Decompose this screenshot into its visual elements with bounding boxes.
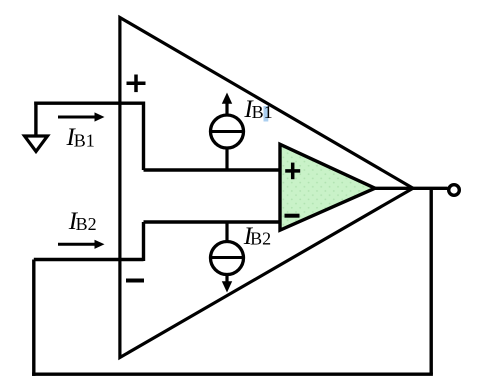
current source IB1 bbox=[211, 93, 244, 171]
ground bbox=[25, 136, 48, 152]
op-amp U1 (large modeled op-amp triangle) bbox=[120, 18, 413, 358]
label + (U2 non-inverting input) bbox=[285, 163, 300, 180]
arrow IB2 current direction bbox=[58, 240, 105, 249]
op-amp U2 (ideal inner op-amp, green) bbox=[280, 144, 375, 230]
wire: ground stub vertical bbox=[34, 102, 37, 137]
svg-text:B2: B2 bbox=[250, 229, 271, 249]
wire: feedback left vertical bbox=[32, 260, 35, 376]
svg-text:B1: B1 bbox=[252, 102, 273, 122]
wire: step up to - input level bbox=[142, 222, 145, 261]
label - (U2 inverting input) bbox=[285, 214, 300, 218]
wire: step down to + input level bbox=[142, 102, 145, 171]
wire: inverting input horizontal lower bbox=[34, 258, 144, 261]
wire: output from inner op-amp to terminal bbox=[375, 187, 448, 190]
wire: + input into inner op-amp bbox=[144, 168, 282, 171]
label - (U1 inverting input) bbox=[126, 279, 144, 283]
current source IB2 bbox=[211, 222, 244, 293]
output terminal bbox=[449, 185, 460, 196]
label + (U1 non-inverting input) bbox=[127, 75, 146, 93]
node highlight (selection behind 1) bbox=[264, 106, 269, 122]
arrow IB1 current direction bbox=[58, 112, 105, 121]
wire: non-inverting input horizontal from ground bbox=[34, 101, 143, 104]
wire: feedback bottom horizontal bbox=[32, 373, 433, 376]
svg-text:B2: B2 bbox=[76, 214, 97, 234]
wire: - input into inner op-amp bbox=[144, 220, 282, 223]
svg-text:B1: B1 bbox=[74, 130, 95, 150]
wire: feedback vertical right bbox=[430, 188, 433, 374]
